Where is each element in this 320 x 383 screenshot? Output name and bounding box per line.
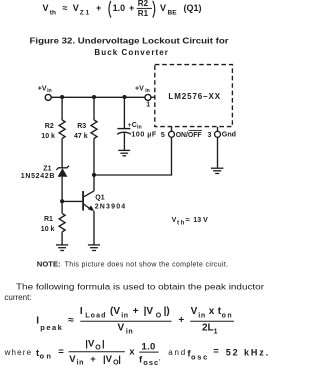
svg-text:peak: peak [40, 323, 62, 332]
svg-text:R1: R1 [44, 216, 53, 223]
svg-text:in: in [47, 88, 52, 94]
wire R2 branch from rail [61, 97, 63, 120]
svg-text:x: x [129, 347, 135, 358]
svg-text:1.0: 1.0 [142, 341, 156, 352]
svg-text:+: + [129, 3, 134, 13]
svg-text:in: in [137, 125, 142, 131]
svg-text:Gnd: Gnd [222, 132, 236, 139]
svg-text:100 µF: 100 µF [131, 132, 157, 139]
svg-text:Load: Load [85, 313, 105, 320]
svg-text:Q1: Q1 [95, 194, 104, 201]
pin 5 ON/OFF [161, 127, 202, 139]
ground (Q1 emitter) [88, 245, 100, 251]
resistor R3 [74, 120, 97, 140]
svg-text:,: , [159, 353, 161, 362]
svg-text:V: V [191, 306, 198, 317]
wire R1 to ground [61, 232, 63, 245]
svg-text:and: and [168, 348, 185, 357]
svg-text:|): |) [164, 306, 170, 317]
wire pin5 down-left to collector node [94, 137, 172, 175]
svg-text:=: = [58, 346, 64, 357]
wire pin3 to ground [217, 137, 219, 167]
paragraph [4, 282, 264, 302]
figure caption [30, 37, 229, 57]
svg-text:where: where [4, 348, 32, 357]
label Vth = 13 V [172, 215, 209, 227]
svg-text:47 k: 47 k [74, 133, 88, 140]
node +Vin right terminal, pin 1 [135, 85, 155, 108]
svg-text:V: V [172, 217, 177, 224]
svg-text:1N5242B: 1N5242B [21, 173, 55, 180]
svg-text:The following formula is used: The following formula is used to obtain … [16, 282, 264, 291]
ground (pin 3) [211, 168, 223, 173]
svg-text:52 kHz.: 52 kHz. [226, 348, 269, 358]
svg-text:in: in [145, 88, 150, 94]
svg-text:2N3904: 2N3904 [95, 203, 126, 210]
svg-text:10 k: 10 k [41, 133, 55, 140]
svg-text:V: V [69, 354, 76, 365]
svg-text:in: in [121, 313, 128, 320]
svg-text:I: I [80, 306, 83, 317]
wire R3 to collector [93, 139, 95, 191]
node +Vin left terminal [38, 85, 52, 100]
svg-text:R3: R3 [77, 123, 86, 130]
svg-text:x: x [209, 306, 215, 317]
svg-text:V: V [43, 3, 49, 13]
svg-text:+V: +V [38, 85, 47, 92]
svg-text:on: on [40, 352, 52, 361]
svg-text:≈: ≈ [63, 3, 68, 13]
svg-text:Figure 32. Undervoltage Lockou: Figure 32. Undervoltage Lockout Circuit … [30, 37, 229, 46]
svg-text:≈: ≈ [68, 315, 74, 326]
svg-text:V: V [160, 3, 166, 13]
svg-text:NOTE:: NOTE: [37, 261, 61, 268]
svg-text:+: + [96, 3, 101, 13]
svg-text:LM2576–XX: LM2576–XX [168, 92, 220, 101]
node junction dots [60, 95, 127, 203]
wire R2 to zener [61, 139, 63, 168]
svg-text:in: in [198, 313, 205, 320]
ground (Cin) [118, 150, 130, 155]
svg-text:|: | [118, 354, 121, 365]
svg-text:|V: |V [103, 354, 113, 365]
svg-text:in: in [126, 329, 133, 336]
pin 3 Gnd [208, 127, 237, 139]
svg-text:2L: 2L [202, 322, 214, 333]
svg-text:R2: R2 [45, 123, 54, 130]
svg-text:osc: osc [143, 358, 158, 367]
svg-text:3: 3 [208, 132, 212, 139]
equation Ipeak [36, 306, 234, 335]
svg-text:=: = [213, 346, 219, 357]
svg-text:5: 5 [161, 132, 165, 139]
svg-text:R1: R1 [138, 9, 149, 18]
svg-text:Z1: Z1 [80, 9, 90, 16]
svg-text:current:: current: [4, 293, 31, 302]
svg-text:+: + [133, 306, 139, 317]
svg-text:R2: R2 [138, 0, 149, 8]
wire R3 branch from rail [93, 97, 95, 120]
svg-text:V: V [118, 323, 125, 334]
svg-text:+V: +V [135, 85, 144, 92]
svg-text:|V: |V [85, 339, 95, 350]
op-amp U1 dashed IC box LM2576-XX [155, 65, 233, 127]
svg-text:|V: |V [144, 306, 154, 317]
svg-text:+: + [178, 315, 184, 326]
svg-text:th: th [177, 221, 185, 227]
wire base node to R1 [61, 201, 63, 213]
wire Cin branch from rail [123, 97, 125, 128]
svg-text:O: O [156, 313, 162, 320]
zener Z1 1N5242B [21, 165, 69, 201]
wire top rail [51, 96, 145, 98]
svg-text:≈: ≈ [186, 215, 190, 224]
svg-text:on: on [222, 313, 232, 320]
svg-text:1: 1 [214, 328, 218, 335]
svg-text:|: | [102, 339, 105, 350]
svg-text:Buck Converter: Buck Converter [94, 48, 167, 57]
svg-text:in: in [77, 360, 84, 367]
svg-text:th: th [50, 9, 56, 16]
equation where ton [4, 339, 269, 367]
svg-text:BE: BE [168, 9, 178, 16]
svg-text:13 V: 13 V [193, 217, 208, 224]
svg-text:Z1: Z1 [43, 165, 51, 172]
svg-text:(V: (V [110, 306, 120, 317]
resistor R1 [41, 213, 65, 233]
svg-text:10 k: 10 k [41, 226, 55, 233]
svg-text:1: 1 [146, 101, 150, 108]
svg-text:+: + [90, 354, 96, 365]
note line [37, 261, 228, 268]
svg-text:ON/OFF: ON/OFF [176, 132, 203, 139]
svg-text:(Q1): (Q1) [184, 3, 202, 13]
equation Vth = Vz1 + (1.0 + R2/R1) VBE (Q1) [43, 0, 202, 18]
ground (R1) [56, 245, 68, 251]
transistor Q1 2N3904 [62, 191, 125, 245]
svg-text:This picture does not show the: This picture does not show the complete … [65, 261, 229, 268]
svg-text:I: I [36, 315, 39, 326]
capacitor Cin 100uF [117, 122, 157, 150]
svg-text:osc: osc [191, 352, 207, 361]
svg-text:V: V [73, 3, 79, 13]
resistor R2 [41, 120, 65, 140]
svg-text:1.0: 1.0 [113, 3, 126, 13]
svg-text:O: O [95, 344, 101, 351]
